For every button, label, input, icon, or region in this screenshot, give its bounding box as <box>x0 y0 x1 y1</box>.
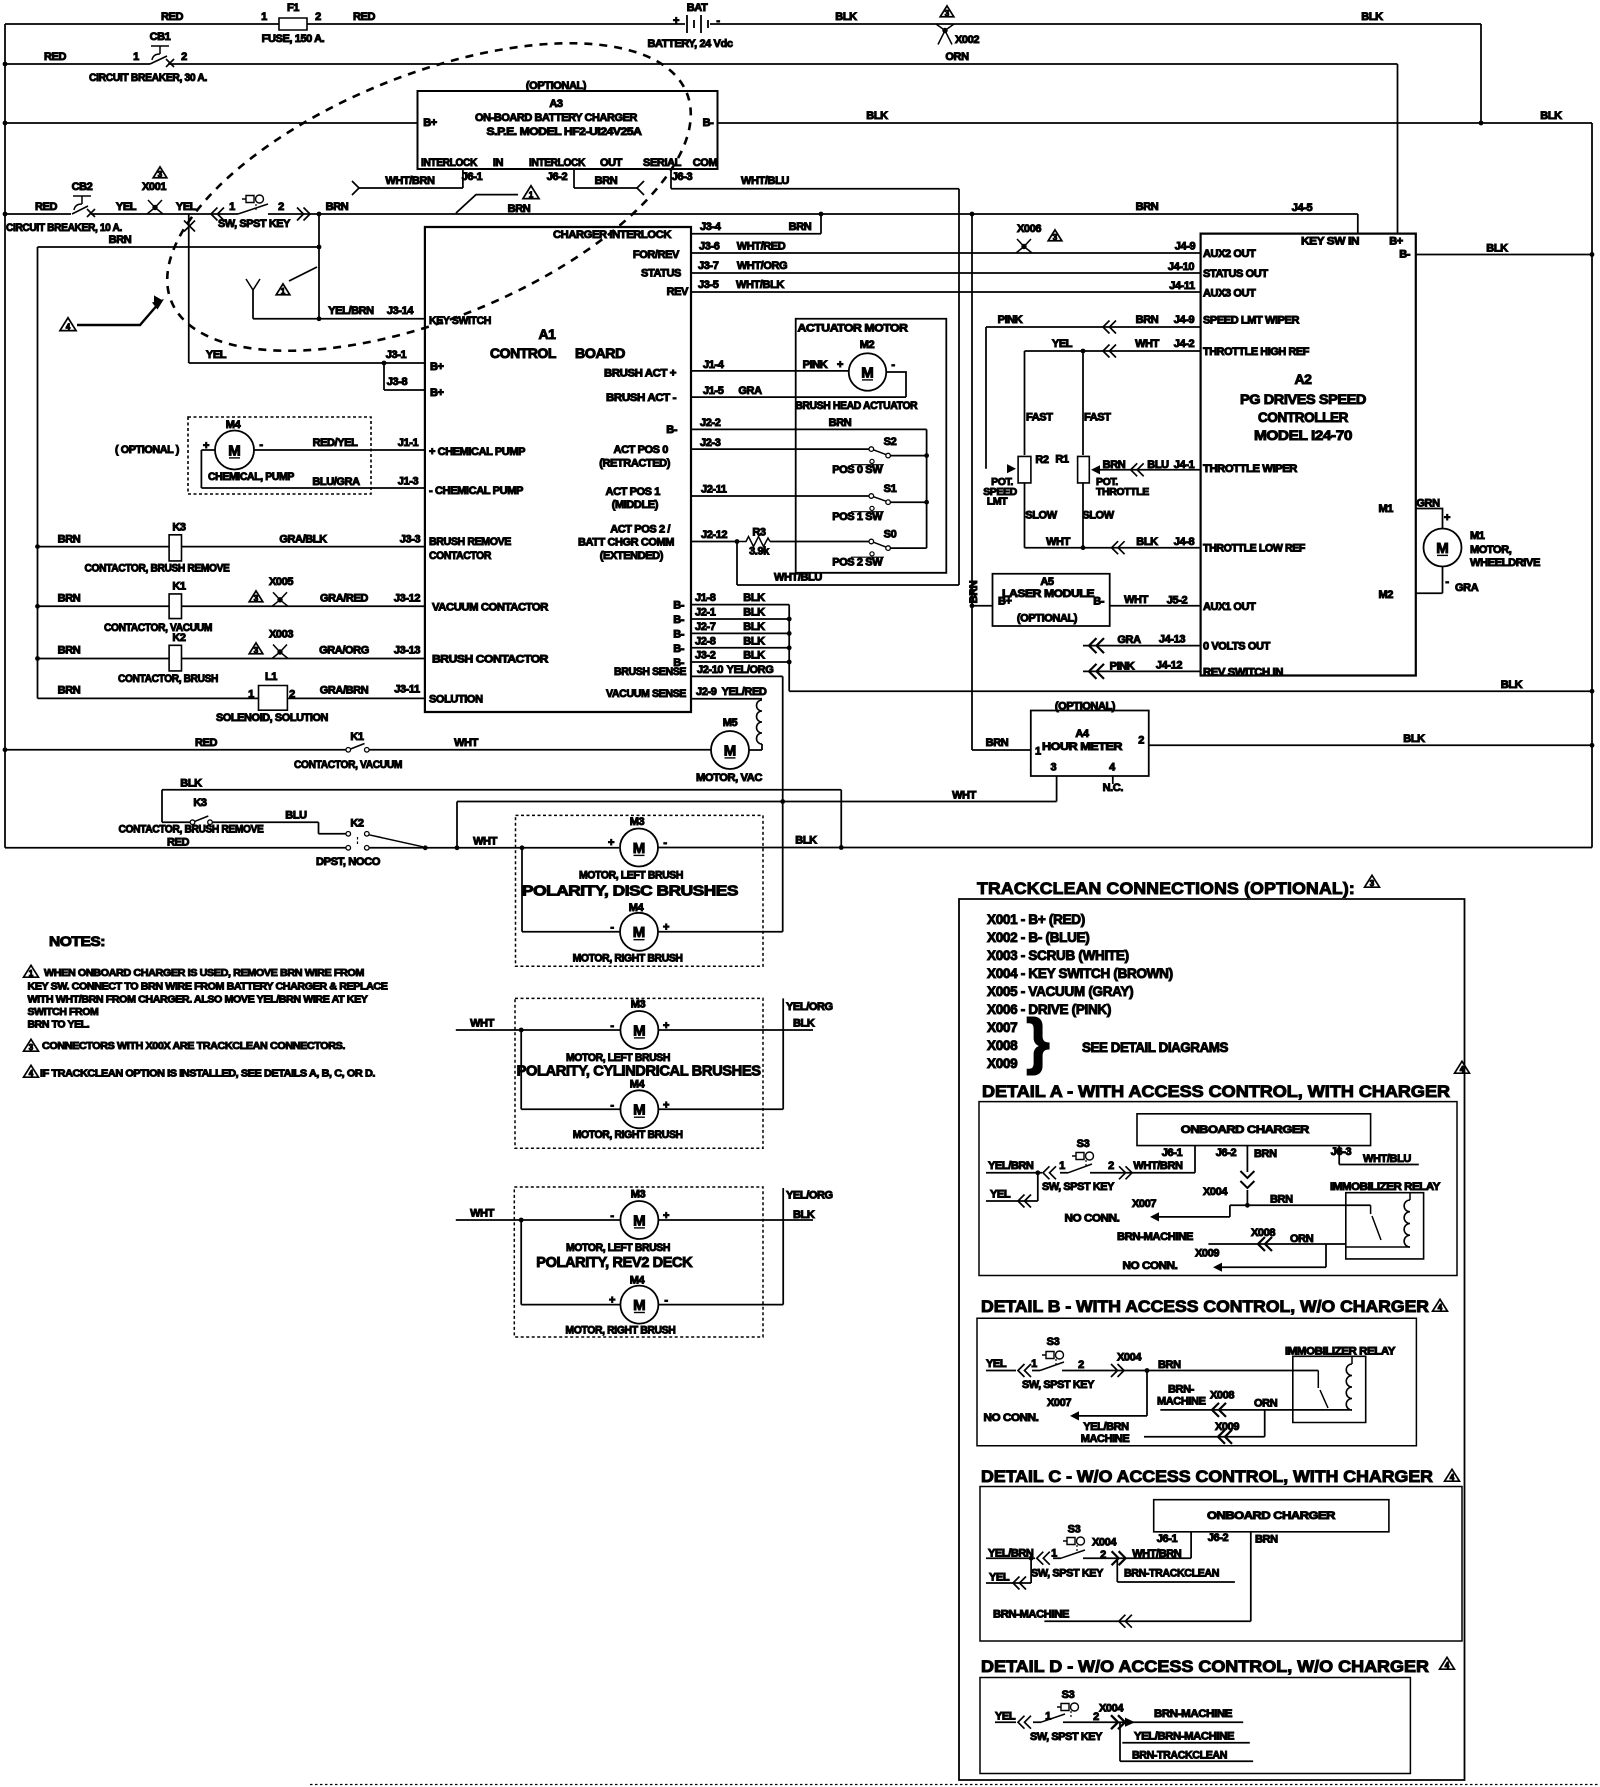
svg-text:ACTUATOR MOTOR: ACTUATOR MOTOR <box>798 323 908 335</box>
detail A X004 connector <box>1240 1171 1254 1188</box>
svg-text:B+: B+ <box>423 117 437 129</box>
svg-text:X004: X004 <box>1117 1351 1142 1363</box>
wire - J1-8 B- BLK <box>691 605 789 692</box>
svg-text:ONBOARD CHARGER: ONBOARD CHARGER <box>1181 1124 1310 1136</box>
svg-text:BLK: BLK <box>1501 679 1523 691</box>
svg-text:B-: B- <box>703 117 715 129</box>
svg-text:J2-2: J2-2 <box>700 417 721 429</box>
wire - R1 top drop <box>1082 351 1084 455</box>
svg-text:BRN: BRN <box>1158 1359 1181 1371</box>
svg-text:BRN-MACHINE: BRN-MACHINE <box>993 1609 1069 1621</box>
svg-text:MOTOR, RIGHT BRUSH: MOTOR, RIGHT BRUSH <box>573 952 683 964</box>
detail B X007 no conn stub <box>1072 1371 1147 1416</box>
svg-text:2: 2 <box>1078 1359 1084 1371</box>
detail A J6-3 leg WHT/BLU stub <box>1339 1146 1419 1165</box>
warning triangle 4 at detail C title <box>1445 1469 1460 1481</box>
wire - YEL branch x=188.75 from key bus to J3-1 <box>188 214 190 363</box>
contactor K3 switch row BLU <box>162 822 319 834</box>
svg-text:BRN: BRN <box>1255 1534 1278 1546</box>
svg-text:GRA/RED: GRA/RED <box>320 592 368 604</box>
svg-text:2: 2 <box>1100 1549 1106 1561</box>
svg-text:J3-5: J3-5 <box>698 279 719 291</box>
svg-text:SWITCH FROM: SWITCH FROM <box>28 1006 99 1018</box>
svg-text:J4-13: J4-13 <box>1159 634 1185 646</box>
connector X003 <box>272 652 288 659</box>
warning triangle 4 at detail B title <box>1433 1299 1448 1311</box>
svg-text:RED: RED <box>167 837 189 849</box>
contactor K3 coil row J3-3 <box>38 546 425 548</box>
svg-text:WHT: WHT <box>470 1018 495 1030</box>
svg-text:YEL: YEL <box>206 349 227 361</box>
svg-text:FUSE, 150 A.: FUSE, 150 A. <box>262 33 325 45</box>
svg-text:CONTROLLER: CONTROLLER <box>1258 409 1348 425</box>
svg-text:TRACKCLEAN CONNECTIONS (OPTI: TRACKCLEAN CONNECTIONS (OPTIONAL): <box>977 879 1355 898</box>
svg-text:1: 1 <box>248 689 254 701</box>
svg-text:CIRCUIT BREAKER, 10 A.: CIRCUIT BREAKER, 10 A. <box>6 222 122 234</box>
wire - M4 rev2 left to WHT <box>521 1220 620 1305</box>
svg-text:1: 1 <box>1035 745 1041 757</box>
svg-text:BRN: BRN <box>1136 201 1159 213</box>
svg-text:J3-12: J3-12 <box>394 592 420 604</box>
svg-text:B+: B+ <box>998 596 1012 608</box>
svg-text:+: + <box>663 1099 669 1111</box>
wire - J3-2 B- BLK <box>691 661 789 663</box>
svg-text:POS 0 SW: POS 0 SW <box>832 464 883 476</box>
svg-text:BLK: BLK <box>793 1018 815 1030</box>
wire - J2-1 B- BLK <box>691 618 789 620</box>
svg-text:A5: A5 <box>1040 576 1054 588</box>
svg-text:DETAIL C - W/O ACCESS CONT: DETAIL C - W/O ACCESS CONTROL, WITH CHAR… <box>981 1468 1433 1486</box>
svg-text:X007: X007 <box>1047 1397 1071 1409</box>
svg-text:NO CONN.: NO CONN. <box>1123 1260 1178 1272</box>
speed controller A2 box <box>1201 234 1416 676</box>
svg-text:CONTACTOR, VACUUM: CONTACTOR, VACUUM <box>294 759 402 771</box>
svg-text:LASER MODULE: LASER MODULE <box>1002 588 1094 600</box>
detail B box <box>977 1318 1416 1446</box>
chemical pump box optional <box>188 417 371 494</box>
svg-text:CB1: CB1 <box>150 31 171 43</box>
svg-text:M4: M4 <box>630 1079 646 1091</box>
svg-text:J5-2: J5-2 <box>1167 595 1188 607</box>
svg-text:GRA/BRN: GRA/BRN <box>320 685 369 697</box>
wire - charger B- BLK bus y=123 right segment to right edge <box>718 122 1593 124</box>
wire - WHT node line A to A4 pin3 <box>457 776 1057 848</box>
svg-text:1: 1 <box>529 190 534 199</box>
svg-text:BRN: BRN <box>58 592 81 604</box>
svg-text:4: 4 <box>66 322 71 331</box>
svg-text:WHEELDRIVE: WHEELDRIVE <box>1470 557 1540 569</box>
svg-text:BLK: BLK <box>743 592 765 604</box>
detail A X009 no conn stub <box>1215 1244 1326 1267</box>
svg-text:K2: K2 <box>172 632 186 644</box>
svg-text:FAST: FAST <box>1026 412 1053 424</box>
wire - RED/YEL J1-1 + chemical pump <box>254 449 425 451</box>
svg-text:X008: X008 <box>1251 1227 1275 1239</box>
battery charger A3 box <box>418 91 718 169</box>
svg-text:YEL/BRN: YEL/BRN <box>988 1548 1034 1560</box>
svg-text:K3: K3 <box>193 797 207 809</box>
svg-text:M2: M2 <box>860 339 875 351</box>
svg-text:M4: M4 <box>226 419 242 431</box>
svg-text:YEL: YEL <box>1052 338 1073 350</box>
svg-text:SW, SPST KEY: SW, SPST KEY <box>1030 1731 1103 1743</box>
wire - BRN/BLU J4-1 throttle wiper into R1 <box>1093 469 1201 471</box>
svg-text:M1: M1 <box>1379 503 1394 515</box>
wire - WHT M3 disc wire y=847.5 <box>369 847 619 849</box>
svg-text:POS 2 SW: POS 2 SW <box>832 557 883 569</box>
wire - WHT rev2 M3 <box>456 1219 621 1221</box>
svg-text:S3: S3 <box>1068 1524 1081 1536</box>
wire - BRN to A5 B+ <box>972 605 993 607</box>
svg-text:MACHINE: MACHINE <box>1081 1433 1130 1445</box>
svg-text:PINK: PINK <box>998 314 1023 326</box>
svg-text:J3-7: J3-7 <box>698 260 719 272</box>
svg-text:M: M <box>633 840 646 857</box>
svg-text:X007: X007 <box>1132 1198 1156 1210</box>
svg-text:J2-3: J2-3 <box>700 437 721 449</box>
detail D YEL wire <box>995 1721 1243 1723</box>
svg-text:KEY SWITCH: KEY SWITCH <box>429 315 491 327</box>
note 3 triangle <box>24 1039 39 1051</box>
svg-text:J1-3: J1-3 <box>398 476 419 488</box>
svg-text:B-: B- <box>1399 249 1411 261</box>
svg-text:X002 - B- (BLUE): X002 - B- (BLUE) <box>987 930 1089 945</box>
detail A BRN-MACHINE ORN X008 wire <box>1208 1243 1345 1245</box>
svg-text:J2-11: J2-11 <box>701 484 727 496</box>
wire - J2-8 B- BLK <box>691 647 789 649</box>
svg-text:A2: A2 <box>1294 371 1312 387</box>
svg-text:POLARITY, DISC BRUSHES: POLARITY, DISC BRUSHES <box>522 882 738 899</box>
svg-text:MOTOR, LEFT BRUSH: MOTOR, LEFT BRUSH <box>579 869 683 881</box>
svg-text:NO CONN.: NO CONN. <box>1065 1213 1120 1225</box>
svg-text:CONTACTOR, VACUUM: CONTACTOR, VACUUM <box>104 622 212 634</box>
svg-text:DETAIL B - WITH ACCESS CON: DETAIL B - WITH ACCESS CONTROL, W/O CHAR… <box>981 1298 1429 1316</box>
svg-text:3: 3 <box>254 594 259 603</box>
svg-text:X009: X009 <box>1195 1247 1219 1259</box>
svg-text:BRN: BRN <box>968 580 980 603</box>
svg-text:L1: L1 <box>265 671 277 683</box>
motor M4 right brush rev2 <box>620 1286 658 1324</box>
svg-text:BLU: BLU <box>285 809 307 821</box>
svg-text:BRN: BRN <box>58 685 81 697</box>
wire - charger J6-3 WHT/BLU to J2-12 via R3 node <box>671 169 959 585</box>
chemical pump motor M4 <box>215 431 254 470</box>
switch S3 SW SPST KEY <box>211 208 224 221</box>
svg-text:J3-11: J3-11 <box>394 684 420 696</box>
svg-text:CONTACTOR, BRUSH REMOVE: CONTACTOR, BRUSH REMOVE <box>85 563 230 575</box>
wire - YEL/ORG stub to M4 rev2 <box>658 1188 783 1305</box>
connector X002 splice on top bus <box>936 24 954 31</box>
svg-text:YEL/BRN: YEL/BRN <box>1083 1421 1129 1433</box>
svg-text:SW, SPST KEY: SW, SPST KEY <box>1022 1379 1095 1391</box>
svg-text:J1-1: J1-1 <box>398 437 419 449</box>
svg-text:BRN: BRN <box>829 417 852 429</box>
svg-text:X002: X002 <box>955 34 979 46</box>
wire - ORN drop to A2 B+ at x=1397.5 <box>1397 64 1399 234</box>
svg-text:BOARD: BOARD <box>575 345 625 361</box>
svg-text:MOTOR,: MOTOR, <box>1470 544 1512 556</box>
svg-text:B+: B+ <box>1389 236 1403 248</box>
svg-text:FAST: FAST <box>1084 412 1111 424</box>
svg-text:4: 4 <box>1460 1065 1465 1074</box>
svg-text:ORN: ORN <box>1254 1398 1278 1410</box>
svg-text:MOTOR, VAC: MOTOR, VAC <box>696 772 762 784</box>
svg-text:J1-8: J1-8 <box>695 592 716 604</box>
svg-text:BRN: BRN <box>1270 1194 1293 1206</box>
svg-text:BRN: BRN <box>1136 314 1159 326</box>
svg-text:M: M <box>633 1297 646 1314</box>
svg-text:( OPTIONAL ): ( OPTIONAL ) <box>115 444 180 456</box>
svg-text:IF TRACKCLEAN OPTION IS INSTAL: IF TRACKCLEAN OPTION IS INSTALLED, SEE D… <box>40 1068 375 1080</box>
svg-text:J6-1: J6-1 <box>1162 1147 1183 1159</box>
wire - M1 bottom to A2 M2 <box>1416 567 1443 594</box>
svg-text:GRA: GRA <box>1455 582 1479 594</box>
svg-text:BRUSH ACT +: BRUSH ACT + <box>604 368 676 380</box>
svg-text:3.9k: 3.9k <box>749 546 770 558</box>
wire - M4 disc left to WHT junction <box>522 848 620 932</box>
svg-text:GRA: GRA <box>1117 634 1141 646</box>
wire - BRN drop from key bus to A5/A4 x=972 <box>972 214 1031 750</box>
svg-text:YEL: YEL <box>989 1572 1010 1584</box>
wire - SPEED LMT WIPER BRN/PINK to R2 <box>986 327 1201 469</box>
svg-text:WHT: WHT <box>473 835 498 847</box>
svg-text:BRN-MACHINE: BRN-MACHINE <box>1154 1708 1232 1720</box>
svg-text:BRUSH REMOVE: BRUSH REMOVE <box>429 536 511 548</box>
svg-text:J6-1: J6-1 <box>462 171 483 183</box>
svg-text:DETAIL A - WITH ACCESS CON: DETAIL A - WITH ACCESS CONTROL, WITH CHA… <box>982 1083 1450 1101</box>
warning triangle 1 callout at antenna <box>289 267 317 281</box>
svg-text:J6-3: J6-3 <box>672 171 693 183</box>
svg-text:M4: M4 <box>630 1275 646 1287</box>
svg-text:1: 1 <box>229 201 235 213</box>
svg-text:RED: RED <box>35 201 57 213</box>
svg-text:J3-8: J3-8 <box>387 376 408 388</box>
svg-text:S.P.E. MODEL HF2-UI24V25A: S.P.E. MODEL HF2-UI24V25A <box>487 126 642 138</box>
wire - PINK wiper arrow into R2 <box>1007 464 1016 473</box>
svg-text:WHT/BRN: WHT/BRN <box>1132 1548 1182 1560</box>
svg-text:BRN-TRACKCLEAN: BRN-TRACKCLEAN <box>1124 1568 1219 1580</box>
svg-text:ON-BOARD BATTERY CHARGER: ON-BOARD BATTERY CHARGER <box>475 112 637 124</box>
svg-text:BRN: BRN <box>1254 1148 1277 1160</box>
svg-text:J3-2: J3-2 <box>695 650 716 662</box>
svg-text:IMMOBILIZER RELAY: IMMOBILIZER RELAY <box>1330 1181 1441 1193</box>
svg-text:BRUSH HEAD ACTUATOR: BRUSH HEAD ACTUATOR <box>795 400 917 412</box>
svg-text:BLK: BLK <box>795 835 817 847</box>
detail C onboard charger box <box>1154 1500 1389 1532</box>
svg-text:SEE DETAIL DIAGRAMS: SEE DETAIL DIAGRAMS <box>1082 1040 1228 1055</box>
svg-text:ORN: ORN <box>1290 1233 1314 1245</box>
svg-text:X008: X008 <box>1210 1389 1234 1401</box>
svg-text:(OPTIONAL): (OPTIONAL) <box>1055 700 1116 712</box>
svg-text:M3: M3 <box>631 998 646 1010</box>
svg-text:3: 3 <box>254 646 259 655</box>
svg-text:BRN-TRACKCLEAN: BRN-TRACKCLEAN <box>1132 1750 1227 1762</box>
svg-text:YEL/RED: YEL/RED <box>722 686 767 698</box>
svg-text:THROTTLE HIGH REF: THROTTLE HIGH REF <box>1203 346 1310 358</box>
detail D BRN-TRACKCLEAN stub <box>1120 1760 1253 1762</box>
antenna stub and J3-14 YEL/BRN wire into A1 KEY SWITCH <box>253 290 425 319</box>
svg-text:YEL/ORG: YEL/ORG <box>727 664 774 676</box>
wire - A5 B- WHT to J5-2 AUX1 OUT <box>1110 605 1201 607</box>
svg-text:MODEL I24-70: MODEL I24-70 <box>1254 427 1353 443</box>
svg-text:J3-1: J3-1 <box>386 349 407 361</box>
wire - WHT cylindrical M3 <box>456 1029 621 1031</box>
svg-text:THROTTLE: THROTTLE <box>1096 486 1149 498</box>
contactor K2 switch DPST NOCO <box>319 833 347 835</box>
svg-text:J3-6: J3-6 <box>699 241 720 253</box>
svg-text:BRUSH CONTACTOR: BRUSH CONTACTOR <box>432 654 548 666</box>
wire - J3-6 WHT/RED to A2 AUX2 OUT J4-9 <box>691 252 1201 254</box>
wire - THROTTLE LOW REF WHT/BLK J4-8 <box>1025 483 1201 548</box>
svg-text:X001: X001 <box>142 181 166 193</box>
svg-text:WHEN ONBOARD CHARGER IS USED,: WHEN ONBOARD CHARGER IS USED, REMOVE BRN… <box>44 967 365 979</box>
wire - right edge B- vertical x=1592 <box>1591 123 1593 848</box>
svg-text:RED: RED <box>353 11 375 23</box>
svg-text:J6-2: J6-2 <box>1216 1147 1237 1159</box>
detail A BRN wire to relay <box>1230 1204 1371 1206</box>
svg-text:SW, SPST KEY: SW, SPST KEY <box>1042 1181 1115 1193</box>
svg-text:M: M <box>228 442 241 459</box>
svg-text:AUX1 OUT: AUX1 OUT <box>1203 601 1256 613</box>
svg-text:S2: S2 <box>884 436 897 448</box>
svg-text:J2-10: J2-10 <box>697 664 723 676</box>
detail A onboard charger box <box>1137 1114 1371 1146</box>
warning triangle 3 at X005 <box>249 591 263 602</box>
svg-text:X009: X009 <box>1215 1421 1239 1433</box>
svg-text:4: 4 <box>1450 1473 1455 1482</box>
svg-text:3: 3 <box>29 1043 34 1052</box>
page bottom dashed line <box>310 1784 1600 1786</box>
svg-text:BLK: BLK <box>743 607 765 619</box>
svg-text:2: 2 <box>315 11 321 23</box>
svg-text:J3-4: J3-4 <box>700 221 722 233</box>
svg-text:BLK: BLK <box>180 778 202 790</box>
svg-text:CHEMICAL, PUMP: CHEMICAL, PUMP <box>208 471 294 483</box>
svg-text:YEL/ORG: YEL/ORG <box>786 1001 833 1013</box>
svg-text:YEL: YEL <box>995 1711 1016 1723</box>
svg-text:J2-12: J2-12 <box>701 529 727 541</box>
svg-text:J6-2: J6-2 <box>547 171 568 183</box>
svg-text:BLK: BLK <box>1540 110 1562 122</box>
svg-text:WHT: WHT <box>470 1208 495 1220</box>
detail A box <box>979 1102 1457 1276</box>
svg-text:PG DRIVES SPEED: PG DRIVES SPEED <box>1240 391 1366 407</box>
svg-text:INTERLOCK: INTERLOCK <box>529 157 585 169</box>
svg-text:BRN: BRN <box>986 737 1009 749</box>
svg-text:SPEED LMT WIPER: SPEED LMT WIPER <box>1203 314 1299 326</box>
svg-text:J4-9: J4-9 <box>1174 314 1195 326</box>
svg-text:0 VOLTS OUT: 0 VOLTS OUT <box>1203 641 1271 653</box>
svg-text:K1: K1 <box>172 581 186 593</box>
svg-text:WHT: WHT <box>952 789 977 801</box>
svg-text:2: 2 <box>289 689 295 701</box>
svg-text:WHT/BLU: WHT/BLU <box>741 175 789 187</box>
svg-text:J1-4: J1-4 <box>703 359 725 371</box>
svg-text:2: 2 <box>1108 1160 1114 1172</box>
svg-text:1: 1 <box>1031 1358 1037 1370</box>
connector X006 on J3-6 wire <box>1016 247 1032 254</box>
svg-text:CONTACTOR, BRUSH: CONTACTOR, BRUSH <box>118 673 218 685</box>
svg-text:WHT: WHT <box>1046 536 1071 548</box>
svg-text:LMT: LMT <box>987 496 1008 508</box>
wire - J2-9 YEL/RED vacuum sense with coil to M5 <box>691 699 762 750</box>
svg-text:R1: R1 <box>1055 454 1069 466</box>
svg-text:WHT/RED: WHT/RED <box>737 241 786 253</box>
svg-text:N.C.: N.C. <box>1103 782 1124 794</box>
wire - charger B+ bus y=123 left segment <box>5 122 418 124</box>
fuse F1 <box>279 18 307 30</box>
svg-text:(MIDDLE): (MIDDLE) <box>612 499 659 511</box>
svg-text:BLK: BLK <box>866 110 888 122</box>
svg-text:ACT POS 1: ACT POS 1 <box>606 486 661 498</box>
svg-text:M2: M2 <box>1379 589 1394 601</box>
svg-text:BRUSH SENSE: BRUSH SENSE <box>614 666 686 678</box>
wire - K3 BLK wire y=790 <box>162 790 841 848</box>
svg-text:DPST, NOCO: DPST, NOCO <box>316 856 381 868</box>
svg-text:WHT: WHT <box>1135 338 1160 350</box>
switch S0 POS 2 SW <box>691 541 869 543</box>
actuator motor box <box>796 319 947 573</box>
svg-text:X004: X004 <box>1203 1186 1228 1198</box>
svg-text:+: + <box>1444 512 1450 524</box>
wire - J1-4 PINK to actuator motor M2+ <box>691 370 849 372</box>
detail B ORN X008 wire <box>1160 1409 1352 1411</box>
svg-text:BATTERY, 24 Vdc: BATTERY, 24 Vdc <box>647 38 732 50</box>
svg-text:K3: K3 <box>172 522 186 534</box>
svg-text:X003: X003 <box>269 628 293 640</box>
svg-text:POLARITY, REV2 DECK: POLARITY, REV2 DECK <box>536 1254 693 1271</box>
svg-text:COM: COM <box>693 157 718 169</box>
svg-text:3: 3 <box>158 170 163 179</box>
svg-text:KEY SW IN: KEY SW IN <box>1301 236 1359 248</box>
svg-text:RED/YEL: RED/YEL <box>313 437 359 449</box>
svg-text:3: 3 <box>1053 233 1058 242</box>
detail B YEL wire <box>986 1370 1147 1372</box>
svg-text:STATUS OUT: STATUS OUT <box>1203 268 1268 280</box>
svg-text:K2: K2 <box>350 817 364 829</box>
connector X005 <box>272 600 288 607</box>
svg-text:R2: R2 <box>1035 454 1049 466</box>
svg-text:YEL: YEL <box>986 1358 1007 1370</box>
svg-text:M3: M3 <box>631 1188 646 1200</box>
pot R1 throttle <box>1078 456 1090 483</box>
svg-text:BLK: BLK <box>1361 11 1383 23</box>
motor M4 right brush disc <box>620 913 658 951</box>
motor M3 left brush rev2 <box>620 1201 658 1239</box>
svg-text:M: M <box>724 742 737 759</box>
svg-text:X001 - B+ (RED): X001 - B+ (RED) <box>987 912 1085 927</box>
svg-text:J4-11: J4-11 <box>1169 280 1195 292</box>
detail A YEL stub <box>986 1173 1038 1201</box>
svg-text:J2-7: J2-7 <box>695 621 716 633</box>
motor M5 MOTOR VAC <box>711 731 749 769</box>
svg-text:3: 3 <box>945 9 950 18</box>
warning triangle 4 at detail A <box>1455 1061 1470 1073</box>
svg-text:GRN: GRN <box>1416 498 1440 510</box>
svg-text:BRN: BRN <box>109 234 132 246</box>
detail C YEL/BRN wire <box>986 1557 1191 1559</box>
svg-text:J6-1: J6-1 <box>1157 1533 1178 1545</box>
svg-text:YEL/BRN-MACHINE: YEL/BRN-MACHINE <box>1134 1730 1234 1742</box>
svg-text:SLOW: SLOW <box>1025 510 1057 522</box>
svg-text:IN: IN <box>493 157 504 169</box>
svg-text:J4-2: J4-2 <box>1174 338 1195 350</box>
svg-text:BRN: BRN <box>1103 459 1126 471</box>
wire - J3-7 WHT/ORG to A2 STATUS OUT J4-10 <box>691 272 1201 274</box>
svg-text:1: 1 <box>261 11 267 23</box>
wire - top battery bus RED/BLK y=24 <box>5 23 1481 25</box>
svg-text:GRA/ORG: GRA/ORG <box>319 645 369 657</box>
